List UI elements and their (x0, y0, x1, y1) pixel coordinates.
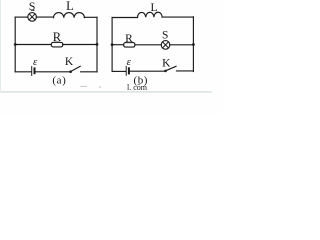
wire: (a) bottom-left segment (15, 71, 31, 73)
wire: (b) middle mid segment (135, 44, 161, 46)
node: (b) middle-left junction (111, 43, 114, 46)
wire: (b) bottom mid segment (130, 70, 165, 72)
wire: (b) middle right segment (170, 44, 194, 46)
wire: (a) top mid segment (36, 16, 53, 18)
resistor R2 box (124, 43, 135, 48)
label S (lamp a) serif bar (31, 10, 35, 11)
node: switch K1 pivot (69, 70, 72, 73)
wire: (b) right vertical (192, 17, 194, 72)
wire: (b) top-right segment (162, 16, 193, 18)
svg-text:K: K (65, 56, 74, 68)
decorative separator line (not labeled component) (0, 91, 212, 93)
svg-text:S: S (162, 29, 168, 41)
svg-text:K: K (162, 58, 171, 70)
inductor L1 (3 humps) (54, 13, 85, 18)
svg-text:ε: ε (127, 56, 132, 68)
wire: (a) bottom mid segment (36, 71, 70, 73)
wire: (a) top-right segment (84, 16, 97, 18)
svg-text:l. cōm: l. cōm (127, 83, 148, 92)
wire: (a) bottom-right segment (81, 71, 97, 73)
svg-text:ε: ε (33, 56, 38, 68)
battery E1 long plate (31, 67, 33, 76)
wire: (b) top-left segment (112, 17, 137, 19)
wire: (b) middle left segment (112, 44, 124, 46)
wire: (a) right vertical (96, 17, 98, 72)
node: (a) middle-left junction (14, 43, 17, 46)
svg-text:R: R (125, 33, 133, 45)
wire: (b) bottom-left segment (112, 70, 125, 72)
wire: (a) middle right segment (63, 44, 97, 46)
resistor R1 box (51, 42, 63, 47)
svg-text:S: S (29, 0, 36, 13)
wire: (a) middle left segment (15, 44, 51, 46)
label R (resistor b) serif bar (126, 41, 131, 44)
label R (resistor a) serif bar (54, 41, 60, 44)
battery E2 long plate (125, 66, 127, 75)
node: (a) middle-right junction (96, 43, 99, 46)
wire: (a) top-left segment (15, 16, 28, 18)
switch K2 lever (166, 66, 177, 71)
svg-text:L: L (150, 2, 157, 14)
wire: circuit (b) left vertical (111, 18, 113, 72)
svg-text:(a): (a) (52, 75, 66, 87)
inductor L2 (3 humps) (137, 12, 162, 17)
wire: circuit (a) left vertical (14, 17, 16, 72)
svg-text:L: L (66, 0, 74, 13)
lamp S2 (circle with X) (161, 41, 170, 50)
battery E1 short plate (34, 68, 36, 73)
node: (b) middle-right junction (192, 43, 195, 46)
lamp S1 (circle with X) (28, 13, 37, 22)
wire: (b) bottom-right segment (177, 70, 194, 72)
node: switch K2 pivot (164, 70, 167, 73)
switch K1 lever (71, 66, 81, 71)
battery E2 short plate (128, 68, 130, 73)
